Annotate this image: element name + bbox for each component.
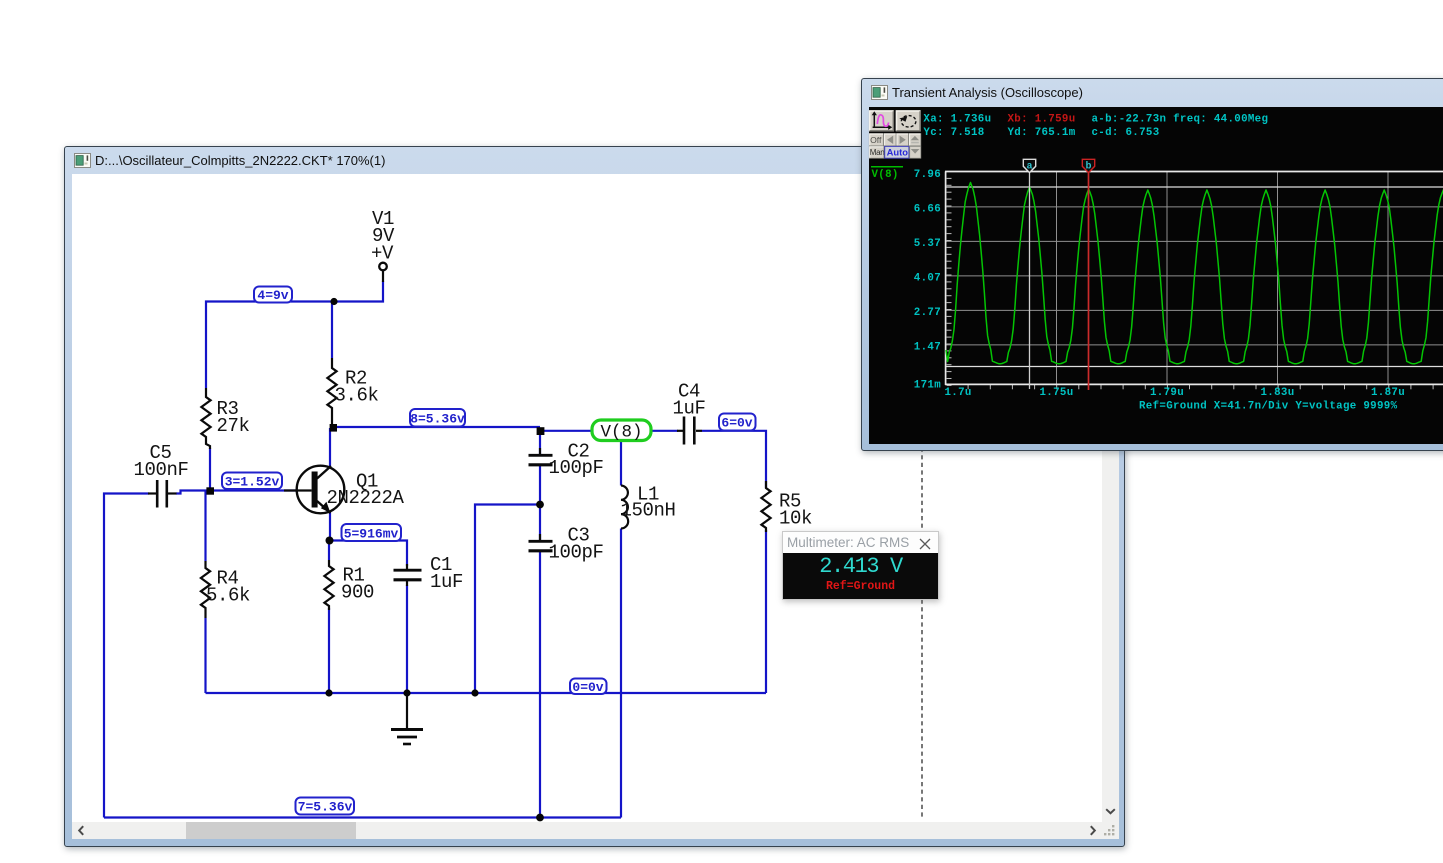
wire mid node to C3 — [539, 505, 541, 542]
resistor R5 — [761, 481, 770, 532]
wire V1 terminal to node 4 corner — [206, 281, 383, 388]
y axis labels — [914, 169, 941, 392]
svg-text:1.47: 1.47 — [914, 342, 941, 354]
svg-text:6.66: 6.66 — [914, 204, 941, 216]
svg-text:150nH: 150nH — [621, 500, 676, 522]
svg-text:8=5.36v: 8=5.36v — [410, 412, 465, 427]
svg-text:Yc: 7.518: Yc: 7.518 — [923, 127, 984, 139]
wire bottom net 7 — [104, 816, 621, 818]
svg-text:900: 900 — [341, 582, 374, 604]
capacitor C3 plates — [529, 540, 553, 543]
node 0 voltage box — [570, 679, 607, 696]
svg-text:1.7u: 1.7u — [945, 387, 972, 399]
svg-text:Ref=Ground X=41.7n/Div Y=volt: Ref=Ground X=41.7n/Div Y=voltage 9999% — [1139, 401, 1398, 413]
svg-text:V(8): V(8) — [600, 423, 642, 443]
svg-text:27k: 27k — [217, 415, 250, 437]
scrollbar corner + resize grip — [1102, 822, 1119, 839]
ground symbol — [406, 693, 408, 730]
junction C2 C3 midpoint — [536, 501, 544, 509]
svg-text:Man: Man — [870, 148, 885, 157]
svg-text:2N2222A: 2N2222A — [327, 487, 405, 509]
svg-text:7.96: 7.96 — [914, 169, 941, 181]
wire C4 right to R5 corner — [702, 431, 766, 488]
svg-text:5.37: 5.37 — [914, 238, 941, 250]
svg-text:a-b:-22.73n freq: 44.00Meg: a-b:-22.73n freq: 44.00Meg — [1092, 114, 1269, 126]
svg-text:3=1.52v: 3=1.52v — [225, 475, 280, 490]
svg-text:Yd: 765.1m: Yd: 765.1m — [1008, 127, 1076, 139]
wire node 8 horizontal — [333, 426, 540, 428]
resistor R2 — [327, 358, 336, 424]
wire node 5 to R1 — [328, 541, 330, 561]
capacitor C1 plates — [394, 569, 422, 572]
junction rail R1 — [325, 689, 332, 696]
capacitor C5 plates — [156, 480, 159, 508]
osc button left arrow — [884, 134, 896, 146]
node 3 voltage box — [222, 473, 282, 490]
net V(8) probe label — [592, 420, 651, 443]
node 4 voltage box — [254, 287, 292, 304]
wire node 8 jog to V(8) box — [540, 430, 592, 432]
cursor Yd line — [946, 366, 1443, 368]
svg-text:1.83u: 1.83u — [1261, 387, 1295, 399]
resistor R3 — [201, 388, 210, 449]
osc button Auto — [885, 146, 909, 158]
cursor Yc line — [946, 186, 1443, 188]
white schematic canvas — [72, 174, 1102, 822]
wire node 8 down to C2 — [539, 431, 541, 455]
capacitor C4 plates — [683, 417, 686, 445]
osc cursor readout row 1 — [923, 114, 1268, 139]
transistor Q1 2N2222A — [297, 466, 345, 514]
svg-text:+V: +V — [371, 243, 394, 265]
svg-text:100nF: 100nF — [134, 459, 189, 481]
oscilloscope plot layer — [868, 106, 1443, 444]
svg-text:100pF: 100pF — [549, 457, 604, 479]
osc button Man — [869, 146, 884, 158]
node 6 voltage box — [719, 414, 756, 431]
schematic drawing layer (clipped to canvas) — [72, 174, 1102, 822]
osc button up arrow — [909, 134, 921, 146]
junction rail C2C3 — [471, 689, 478, 696]
svg-text:2.77: 2.77 — [914, 307, 941, 319]
svg-text:4.07: 4.07 — [914, 273, 941, 285]
wire mid node left branch — [475, 505, 540, 694]
svg-text:7=5.36v: 7=5.36v — [298, 800, 353, 815]
plot frame — [945, 172, 1443, 386]
plot minor ticks — [947, 178, 1443, 389]
capacitor C2 plates — [529, 454, 553, 457]
wire L1 bottom to net 7 — [620, 529, 622, 818]
svg-text:5=916mv: 5=916mv — [344, 527, 399, 542]
resistor R4 — [201, 561, 210, 618]
svg-text:V(8): V(8) — [872, 169, 899, 181]
svg-text:6=0v: 6=0v — [721, 416, 752, 431]
plot major grid — [946, 172, 1443, 384]
svg-text:Auto: Auto — [887, 146, 909, 157]
junction rail C1 ground — [403, 689, 410, 696]
svg-text:b: b — [1085, 161, 1091, 173]
wire R4 bottom to ground rail — [204, 618, 206, 693]
svg-text:3.6k: 3.6k — [335, 385, 379, 407]
wire C4 left — [651, 430, 678, 432]
junction node 5 — [326, 537, 334, 545]
trace V(8) — [946, 183, 1443, 364]
vertical scrollbar — [1102, 174, 1119, 822]
wire collector to node 8 — [329, 428, 331, 467]
wire R1 bottom to rail — [328, 608, 330, 693]
wire C2 bottom to mid node — [539, 465, 541, 505]
main schematic editor window D:...\Oscillateur_Colmpitts_2N2222.CKT — [64, 146, 1125, 847]
junction node 8 at C2 — [537, 427, 545, 435]
osc button right arrow — [897, 134, 909, 146]
transient analysis oscilloscope window — [861, 78, 1443, 451]
wire node 4 to R2 top — [331, 302, 333, 359]
cursor b flag — [1082, 159, 1094, 172]
node 8 voltage box — [410, 409, 465, 427]
svg-text:1.87u: 1.87u — [1371, 387, 1405, 399]
svg-text:Xb: 1.759u: Xb: 1.759u — [1008, 114, 1076, 126]
junction net7 C3 — [536, 814, 544, 822]
svg-text:Xa: 1.736u: Xa: 1.736u — [923, 114, 991, 126]
wire C5 right to node 3 and base — [176, 491, 296, 494]
cursor a flag — [1023, 159, 1035, 172]
page boundary dashed line — [921, 174, 923, 819]
wire C1 bottom to rail — [406, 585, 408, 693]
svg-text:1.79u: 1.79u — [1150, 387, 1184, 399]
svg-text:4=9v: 4=9v — [257, 288, 288, 303]
wire ground rail net 0 — [206, 692, 767, 694]
cursor a line — [1029, 173, 1031, 390]
cursor b line — [1088, 173, 1090, 391]
svg-text:1uF: 1uF — [430, 571, 463, 593]
resistor R1 — [324, 560, 333, 610]
wire C3 bottom to net 7 — [539, 551, 541, 819]
horizontal scrollbar — [72, 822, 1102, 839]
osc toolbar button repeat — [896, 111, 920, 132]
junction node 3 — [206, 487, 214, 494]
node 5 voltage box — [342, 524, 402, 542]
osc button Off — [869, 134, 883, 146]
svg-text:Off: Off — [870, 135, 882, 145]
osc button down arrow — [910, 146, 921, 158]
svg-text:171m: 171m — [914, 380, 941, 392]
svg-text:a: a — [1026, 162, 1032, 173]
trace legend V(8) — [871, 167, 903, 181]
osc toolbar button waveform — [869, 111, 893, 132]
wire node 5 to C1 — [330, 541, 408, 567]
svg-text:c-d: 6.753: c-d: 6.753 — [1092, 127, 1160, 139]
svg-text:5.6k: 5.6k — [206, 585, 250, 607]
battery V1 terminal — [379, 263, 387, 271]
wire R3 bottom to node 3 — [209, 448, 211, 491]
wire emitter node 5 — [329, 513, 331, 541]
x axis labels — [945, 387, 1406, 399]
svg-text:10k: 10k — [779, 508, 812, 530]
node 7 voltage box — [296, 798, 355, 815]
svg-text:1uF: 1uF — [673, 398, 706, 420]
multimeter floating window — [782, 531, 939, 600]
wire V(8) box down to L1 — [620, 441, 622, 486]
inductor L1 — [621, 486, 628, 529]
svg-text:1.75u: 1.75u — [1040, 387, 1074, 399]
wire R5 bottom to rail — [765, 530, 767, 693]
wire node 3 down to R4 — [204, 491, 206, 561]
junction node 8 at R2 — [330, 424, 337, 432]
junction node 4 — [330, 298, 337, 305]
wire C5 left lead — [104, 494, 149, 818]
svg-text:0=0v: 0=0v — [572, 680, 603, 695]
svg-text:100pF: 100pF — [549, 542, 604, 564]
